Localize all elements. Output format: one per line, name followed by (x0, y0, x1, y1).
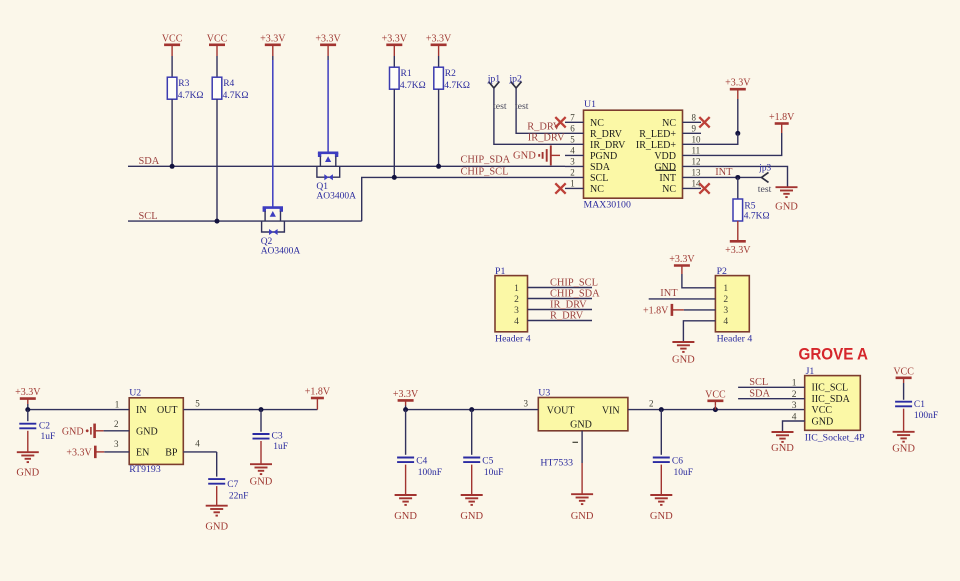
svg-text:U1: U1 (584, 99, 596, 110)
svg-text:GND: GND (775, 202, 798, 213)
svg-text:GND: GND (205, 521, 228, 532)
svg-text:1: 1 (723, 284, 728, 294)
svg-text:+3.3V: +3.3V (15, 387, 41, 398)
svg-text:VCC: VCC (893, 366, 914, 377)
svg-text:12: 12 (692, 156, 701, 166)
svg-text:3: 3 (570, 156, 575, 166)
svg-text:4: 4 (570, 145, 575, 155)
svg-text:+1.8V: +1.8V (643, 305, 669, 316)
svg-text:CHIP_SDA: CHIP_SDA (461, 154, 511, 165)
svg-text:INT: INT (715, 167, 733, 178)
svg-text:IIC_Socket_4P: IIC_Socket_4P (805, 433, 865, 444)
svg-text:7: 7 (570, 112, 575, 122)
svg-text:8: 8 (692, 112, 697, 122)
svg-text:C5: C5 (482, 456, 493, 466)
svg-text:GND: GND (62, 426, 84, 437)
svg-text:R_LED+: R_LED+ (639, 129, 676, 140)
svg-text:10uF: 10uF (674, 468, 694, 478)
svg-text:IR_DRV: IR_DRV (528, 133, 565, 144)
svg-text:22nF: 22nF (229, 491, 249, 501)
svg-text:+3.3V: +3.3V (725, 78, 751, 89)
svg-text:RT9193: RT9193 (129, 464, 161, 475)
svg-text:MAX30100: MAX30100 (584, 200, 631, 211)
svg-text:SCL: SCL (139, 211, 158, 222)
svg-text:5: 5 (195, 399, 200, 409)
svg-text:4.7KΩ: 4.7KΩ (400, 81, 426, 91)
svg-text:P2: P2 (717, 266, 727, 277)
svg-text:2: 2 (649, 398, 654, 408)
svg-text:+3.3V: +3.3V (669, 254, 695, 265)
svg-text:6: 6 (570, 123, 575, 133)
svg-text:+1.8V: +1.8V (769, 112, 795, 123)
svg-text:HT7533: HT7533 (540, 457, 573, 468)
svg-text:+3.3V: +3.3V (725, 245, 751, 256)
svg-text:IR_DRV: IR_DRV (590, 140, 626, 151)
svg-text:3: 3 (723, 306, 728, 316)
svg-text:PGND: PGND (590, 151, 617, 162)
svg-text:9: 9 (692, 123, 697, 133)
svg-text:EN: EN (136, 448, 149, 459)
svg-text:Header 4: Header 4 (717, 333, 753, 344)
svg-text:AO3400A: AO3400A (261, 247, 301, 257)
svg-text:CHIP_SCL: CHIP_SCL (550, 277, 598, 288)
svg-text:3: 3 (524, 398, 529, 408)
svg-text:test: test (515, 101, 529, 112)
svg-text:jp3: jp3 (758, 163, 771, 173)
svg-text:GND: GND (892, 444, 915, 455)
svg-text:3: 3 (792, 401, 797, 411)
svg-text:GND: GND (136, 426, 158, 437)
svg-text:3: 3 (114, 439, 119, 449)
svg-text:R_DRV: R_DRV (527, 122, 561, 133)
svg-text:IR_LED+: IR_LED+ (636, 140, 676, 151)
svg-text:VCC: VCC (207, 33, 228, 44)
svg-text:NC: NC (590, 118, 604, 129)
svg-text:+3.3V: +3.3V (315, 33, 341, 44)
svg-text:jp2: jp2 (508, 73, 522, 84)
svg-text:VCC: VCC (705, 389, 726, 400)
svg-text:SDA: SDA (749, 388, 770, 399)
svg-text:2: 2 (114, 419, 119, 429)
svg-text:1: 1 (514, 284, 519, 294)
svg-text:P1: P1 (495, 266, 505, 277)
svg-text:1uF: 1uF (273, 442, 288, 452)
svg-text:Header 4: Header 4 (495, 333, 531, 344)
svg-text:4: 4 (514, 317, 519, 327)
svg-text:GND: GND (650, 511, 673, 522)
svg-text:R2: R2 (445, 69, 456, 79)
svg-text:C7: C7 (227, 480, 238, 490)
svg-text:VCC: VCC (162, 33, 183, 44)
svg-text:C2: C2 (39, 422, 50, 432)
svg-text:4.7KΩ: 4.7KΩ (178, 91, 204, 101)
svg-text:+3.3V: +3.3V (426, 33, 452, 44)
svg-text:1: 1 (570, 178, 575, 188)
svg-text:VDD: VDD (654, 151, 676, 162)
svg-text:C6: C6 (672, 456, 683, 466)
svg-text:100nF: 100nF (418, 468, 442, 478)
svg-text:J1: J1 (806, 366, 815, 377)
svg-text:GND: GND (771, 443, 794, 454)
svg-text:CHIP_SDA: CHIP_SDA (550, 288, 600, 299)
svg-text:jp1: jp1 (487, 73, 501, 84)
svg-text:GND: GND (571, 511, 594, 522)
svg-text:GND: GND (460, 511, 483, 522)
svg-text:IIC_SCL: IIC_SCL (812, 383, 849, 394)
svg-text:NC: NC (590, 184, 604, 195)
svg-text:SCL: SCL (590, 173, 608, 184)
svg-text:10uF: 10uF (484, 468, 504, 478)
svg-text:INT: INT (659, 173, 676, 184)
svg-text:5: 5 (570, 134, 575, 144)
svg-text:IIC_SDA: IIC_SDA (812, 394, 851, 405)
svg-text:+3.3V: +3.3V (382, 33, 408, 44)
svg-text:C4: C4 (416, 456, 427, 466)
svg-text:GND: GND (812, 416, 834, 427)
svg-text:SCL: SCL (749, 377, 768, 388)
svg-text:BP: BP (165, 448, 178, 459)
svg-text:4.7KΩ: 4.7KΩ (744, 211, 770, 221)
svg-text:R_DRV: R_DRV (590, 129, 623, 140)
svg-text:GND: GND (654, 162, 676, 173)
svg-text:11: 11 (692, 145, 701, 155)
svg-text:AO3400A: AO3400A (316, 192, 356, 202)
svg-text:Q2: Q2 (261, 237, 273, 247)
svg-text:4: 4 (723, 317, 728, 327)
svg-text:GROVE A: GROVE A (799, 345, 869, 364)
svg-text:C3: C3 (272, 432, 283, 442)
svg-text:VIN: VIN (602, 406, 620, 417)
svg-text:+3.3V: +3.3V (260, 33, 286, 44)
svg-text:4: 4 (195, 438, 200, 448)
svg-text:GND: GND (16, 467, 39, 478)
svg-text:2: 2 (570, 167, 575, 177)
svg-text:4.7KΩ: 4.7KΩ (223, 91, 249, 101)
svg-text:NC: NC (662, 118, 676, 129)
svg-text:10: 10 (692, 134, 702, 144)
svg-text:R3: R3 (178, 79, 189, 89)
svg-text:U3: U3 (538, 387, 550, 398)
svg-text:+3.3V: +3.3V (393, 389, 419, 400)
svg-text:Q1: Q1 (316, 182, 328, 192)
svg-text:GND: GND (394, 511, 417, 522)
svg-text:GND: GND (250, 476, 273, 487)
svg-text:R5: R5 (744, 201, 755, 211)
svg-text:4.7KΩ: 4.7KΩ (444, 81, 470, 91)
svg-text:VOUT: VOUT (547, 406, 575, 417)
svg-text:1: 1 (115, 399, 120, 409)
svg-text:SDA: SDA (139, 156, 160, 167)
svg-text:3: 3 (514, 306, 519, 316)
svg-text:R4: R4 (223, 79, 234, 89)
svg-text:OUT: OUT (157, 405, 178, 416)
svg-text:R_DRV: R_DRV (550, 310, 584, 321)
svg-text:+1.8V: +1.8V (305, 387, 331, 398)
svg-text:2: 2 (514, 295, 519, 305)
svg-text:GND: GND (570, 419, 592, 430)
svg-text:1uF: 1uF (41, 432, 56, 442)
svg-text:GND: GND (672, 354, 695, 365)
svg-text:CHIP_SCL: CHIP_SCL (461, 166, 509, 177)
svg-text:+3.3V: +3.3V (66, 447, 92, 458)
svg-text:2: 2 (723, 295, 728, 305)
svg-text:VCC: VCC (812, 405, 833, 416)
svg-text:test: test (758, 184, 772, 195)
svg-text:C1: C1 (914, 400, 925, 410)
svg-text:test: test (493, 101, 507, 112)
svg-text:GND: GND (513, 151, 536, 162)
svg-text:13: 13 (692, 167, 702, 177)
svg-text:SDA: SDA (590, 162, 611, 173)
svg-text:100nF: 100nF (914, 411, 938, 421)
svg-text:NC: NC (662, 184, 676, 195)
svg-text:INT: INT (660, 288, 678, 299)
svg-text:U2: U2 (129, 387, 141, 398)
svg-text:IR_DRV: IR_DRV (550, 299, 587, 310)
svg-text:R1: R1 (401, 69, 412, 79)
svg-text:IN: IN (136, 405, 147, 416)
